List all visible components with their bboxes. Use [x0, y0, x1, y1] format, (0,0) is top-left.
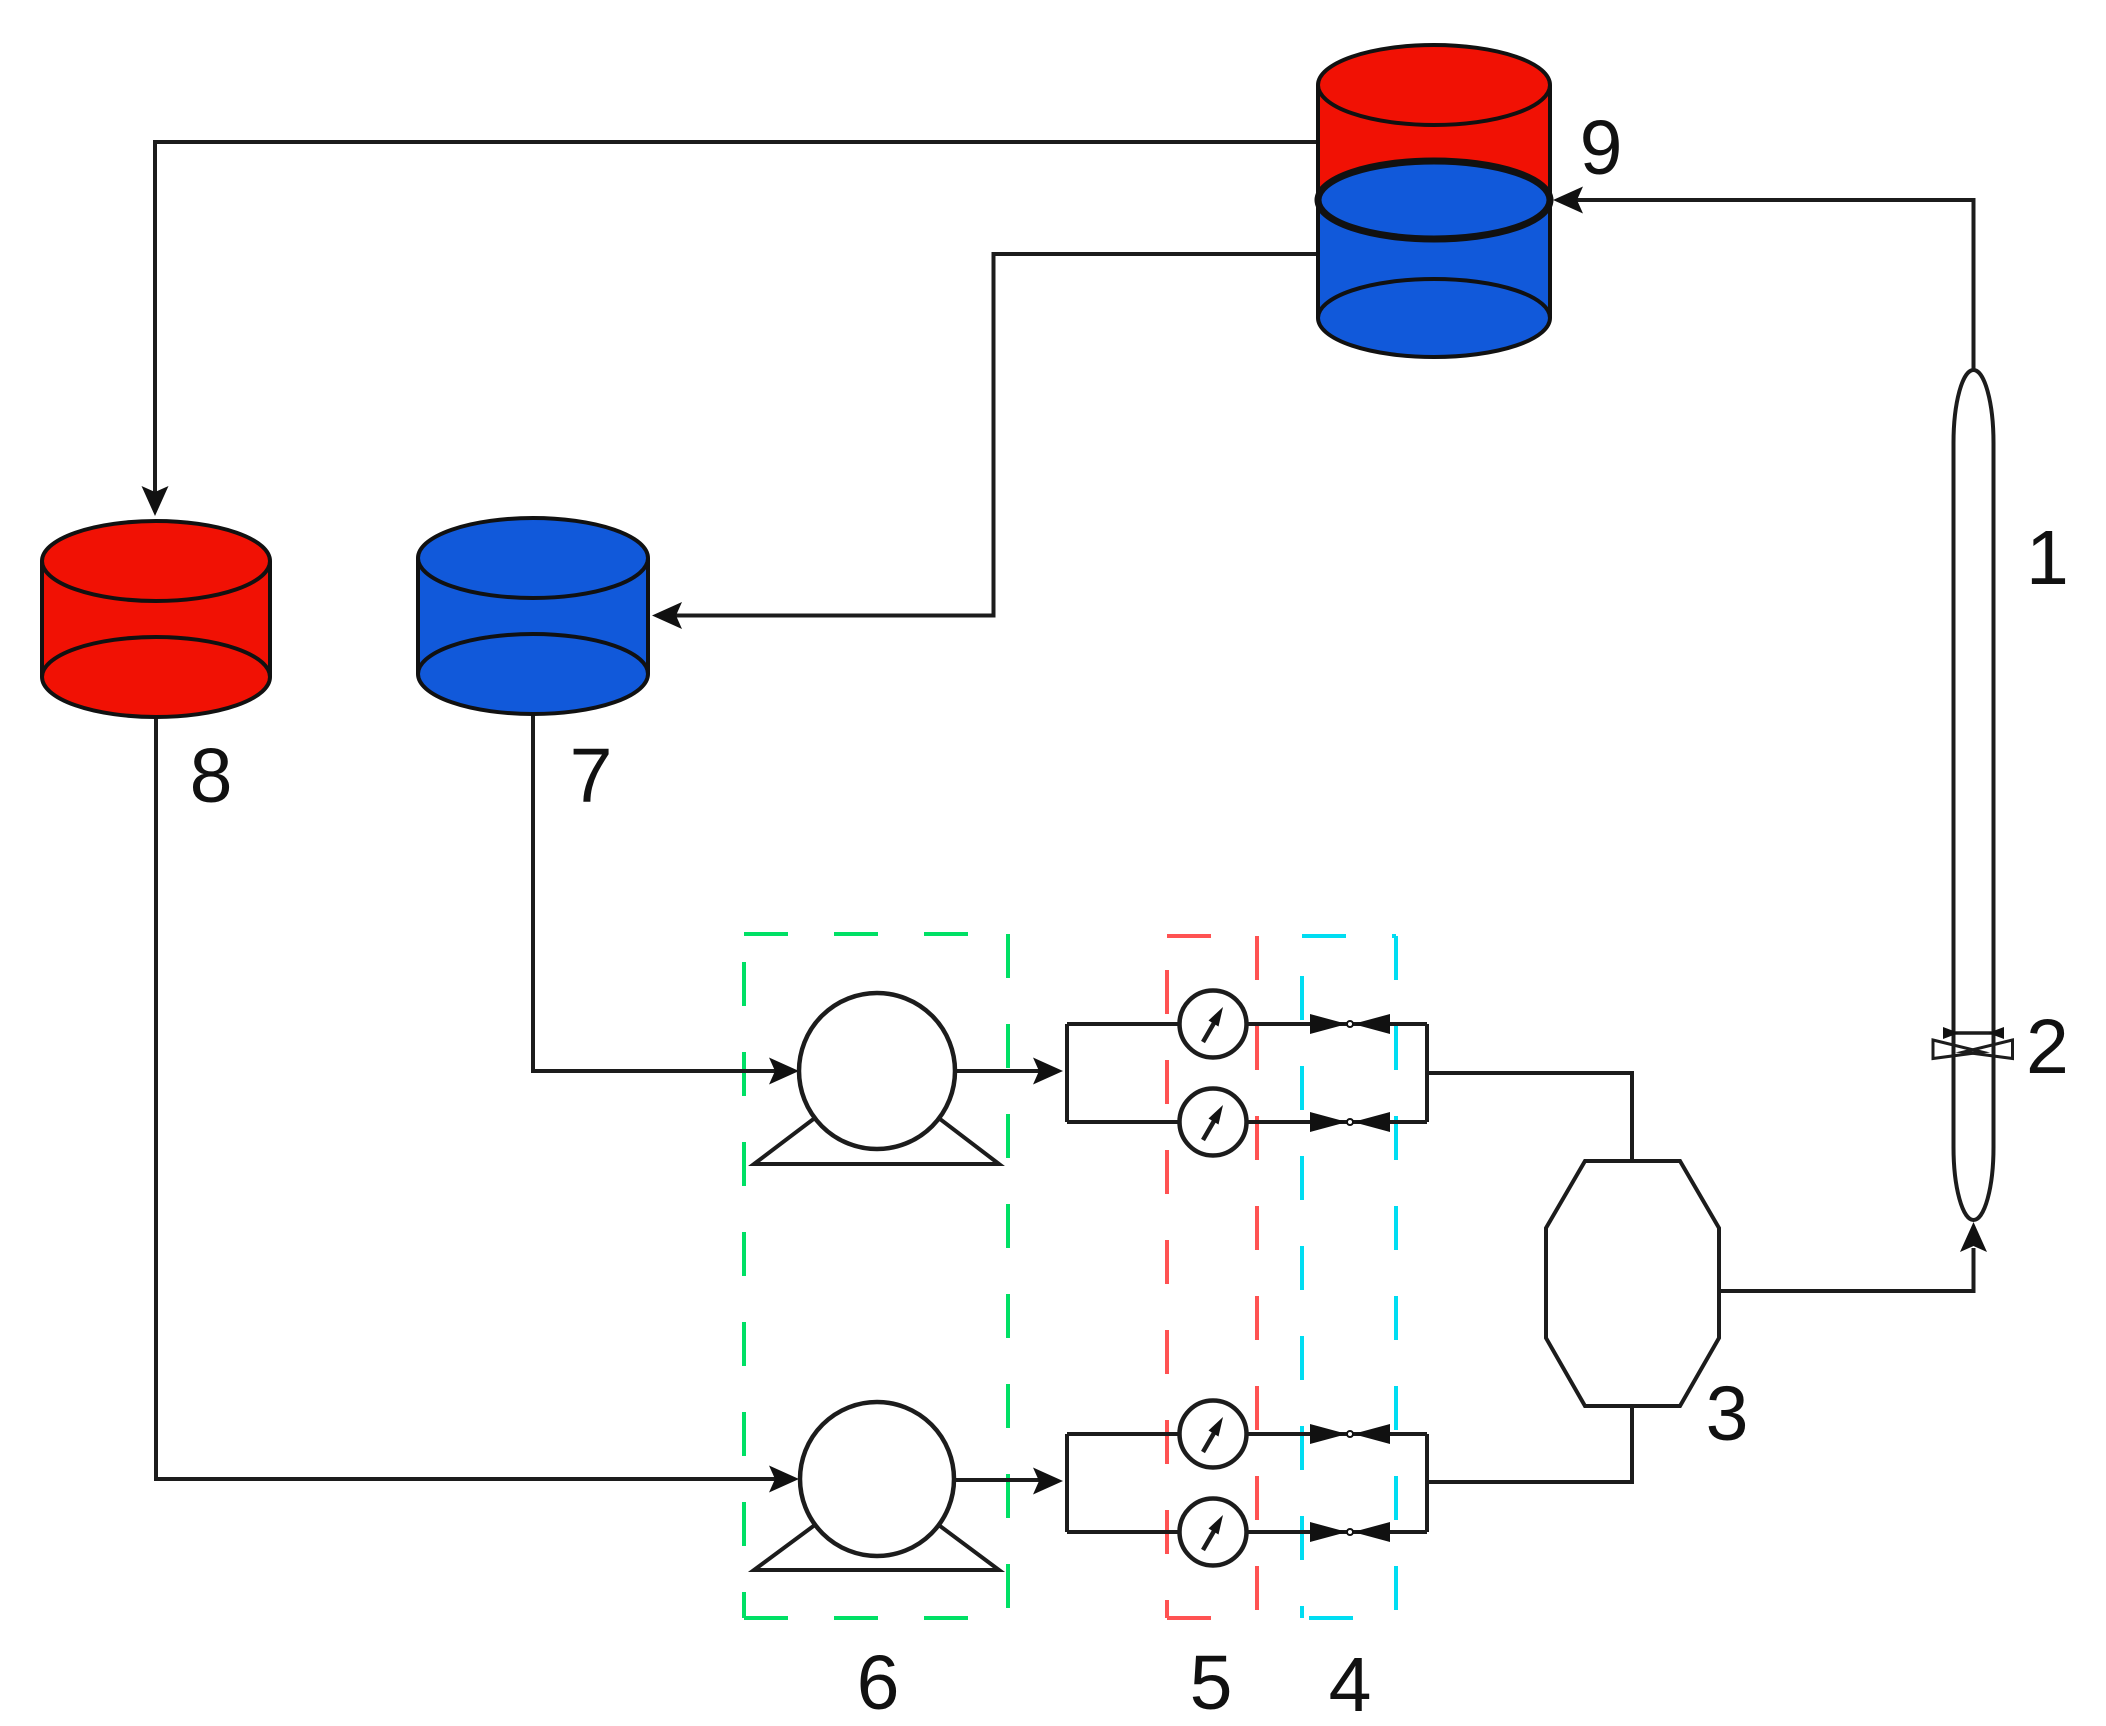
dashed cyan box 4 — [1302, 936, 1396, 1622]
arrowhead at split 2 — [1033, 1468, 1063, 1495]
arrowhead into tank 7 — [652, 602, 682, 629]
wire from tank 9 to tank 8 — [155, 142, 1318, 500]
pump 6b (bottom) — [754, 1402, 999, 1570]
valve 2 on capsule — [1933, 1027, 2013, 1059]
valve 4a — [1310, 1014, 1390, 1034]
arrowhead into capsule 1 bottom — [1960, 1222, 1987, 1252]
arrowhead into pump 6a — [769, 1058, 799, 1085]
arrowhead into pump 6b — [769, 1466, 799, 1493]
dashed red box 5 — [1167, 936, 1257, 1620]
pump 6a (top) — [754, 993, 999, 1164]
svg-text:1: 1 — [2026, 515, 2069, 601]
dashed green box 6 — [744, 934, 1008, 1620]
flow meter 5d — [1180, 1499, 1247, 1566]
tank 9 (red/blue cylinder) — [1318, 45, 1550, 357]
tank 8 (red cylinder) — [42, 521, 270, 717]
flow meter 5a — [1180, 991, 1247, 1058]
flow meter 5b — [1180, 1089, 1247, 1156]
svg-text:2: 2 — [2026, 1004, 2069, 1090]
wire pump 6b outlet to split — [956, 1478, 1049, 1482]
octagon 3 — [1546, 1161, 1719, 1406]
capsule column 1 — [1954, 370, 1994, 1220]
valve 4d — [1310, 1522, 1390, 1542]
flow meter 5c — [1180, 1401, 1247, 1468]
svg-text:9: 9 — [1580, 105, 1623, 191]
svg-text:7: 7 — [570, 733, 613, 819]
wire octagon 3 to capsule 1 — [1719, 1248, 1974, 1291]
arrowhead into tank 9 — [1553, 187, 1583, 214]
svg-text:8: 8 — [190, 733, 233, 819]
svg-text:3: 3 — [1706, 1371, 1749, 1457]
wire from tank 9 to tank 7 — [666, 254, 1318, 616]
arrowhead into tank 8 — [142, 486, 169, 516]
loop manifold bottom (split/merge) — [1067, 1408, 1632, 1532]
loop manifold top (split/merge) — [1067, 1024, 1632, 1159]
svg-text:5: 5 — [1190, 1640, 1233, 1726]
svg-text:4: 4 — [1329, 1642, 1372, 1726]
tank 7 (blue cylinder) — [418, 518, 648, 714]
svg-text:6: 6 — [857, 1640, 900, 1726]
wire from capsule 1 top to tank 9 — [1567, 200, 1974, 370]
wire pump 6a outlet to split — [956, 1069, 1049, 1073]
valve 4c — [1310, 1424, 1390, 1444]
wire from tank 8 to pump 6b — [156, 717, 785, 1479]
valve 4b — [1310, 1112, 1390, 1132]
wire from tank 7 to pump 6a — [533, 715, 785, 1071]
arrowhead at split 1 — [1033, 1058, 1063, 1085]
